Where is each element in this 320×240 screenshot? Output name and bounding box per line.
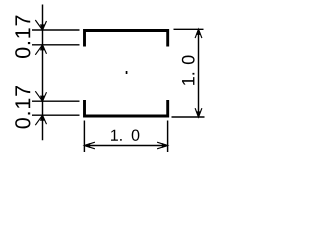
- arrows: [35, 20, 202, 149]
- arrow down at ext3: [35, 91, 46, 101]
- bottom ext left: [83, 121, 85, 153]
- text 0.17 top: [15, 16, 30, 58]
- part outline: top channel: [85, 31, 168, 117]
- part top line: [85, 31, 168, 47]
- bottom dim line: [84, 145, 167, 147]
- arrow left at bottom dim left: [84, 142, 95, 149]
- arrow down at ext1: [35, 20, 46, 30]
- text 0.17 bottom: [15, 86, 30, 128]
- arrow down at right dim bottom: [195, 108, 202, 117]
- right ext bottom: [172, 116, 205, 118]
- right ext top: [174, 28, 204, 30]
- arrow right at bottom dim right: [157, 142, 168, 149]
- left dim line: [42, 5, 44, 141]
- center mark: [126, 71, 128, 74]
- dimension thin lines: [32, 5, 205, 153]
- ext line 1: [32, 29, 80, 31]
- text 1.0 right: [182, 55, 195, 84]
- right dim line: [198, 29, 200, 117]
- arrow up at right dim top: [195, 29, 202, 38]
- ext line 4: [32, 114, 80, 116]
- text 1.0 bottom: [111, 130, 139, 141]
- part bottom line: [85, 100, 168, 116]
- arrow up at ext2: [35, 45, 46, 55]
- bottom ext right: [167, 121, 169, 153]
- arrow up at ext4: [35, 115, 46, 125]
- ext line 2: [32, 44, 80, 46]
- ext line 3: [32, 100, 80, 102]
